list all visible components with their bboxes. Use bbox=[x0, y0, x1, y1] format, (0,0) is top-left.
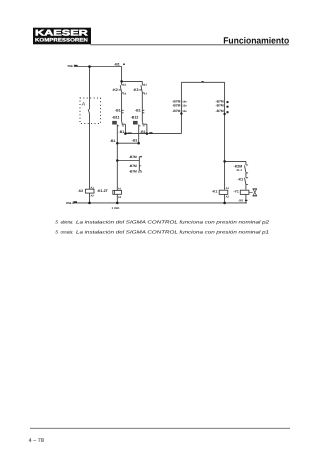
svg-text:-B1: -B1 bbox=[114, 63, 120, 67]
svg-text:Funcionamiento: Funcionamiento bbox=[223, 35, 289, 45]
node bus K1.2T bbox=[116, 202, 119, 205]
svg-text:14: 14 bbox=[144, 93, 147, 96]
svg-text:-B7M: -B7M bbox=[216, 104, 224, 108]
node ref right bbox=[223, 113, 225, 115]
svg-text:14: 14 bbox=[123, 93, 126, 96]
terminal X1 pin8 tick bbox=[74, 201, 77, 202]
svg-text:cerrada:: cerrada: bbox=[61, 230, 74, 235]
wire ref branch at node 160.5 bbox=[117, 156, 139, 170]
contact K3 bbox=[141, 85, 145, 93]
svg-text:abierta:: abierta: bbox=[61, 219, 74, 224]
svg-text:-B1: -B1 bbox=[135, 108, 141, 112]
svg-text:-K2: -K2 bbox=[78, 189, 84, 193]
wire left vertical upper bbox=[89, 67, 91, 110]
svg-text:A1: A1 bbox=[91, 187, 95, 190]
svg-text:-X0: -X0 bbox=[238, 198, 243, 202]
svg-text:-B1: -B1 bbox=[132, 139, 138, 143]
svg-text:La instalación del SIGMA CONTR: La instalación del SIGMA CONTROL funcion… bbox=[76, 219, 270, 224]
valve symbol bbox=[249, 191, 253, 193]
wire frame right vertical bbox=[224, 82, 226, 189]
svg-text:-B1: -B1 bbox=[115, 108, 121, 112]
svg-text:-K1: -K1 bbox=[237, 178, 243, 182]
sensor box B12 bbox=[133, 121, 138, 125]
svg-text:13e: 13e bbox=[182, 105, 187, 108]
node com right bbox=[146, 132, 149, 135]
coil K2 bbox=[85, 189, 94, 193]
svg-text:-K3: -K3 bbox=[133, 88, 139, 92]
node top bbox=[88, 65, 91, 68]
transducer B11 kink and pins bbox=[117, 121, 125, 143]
wire K1.2T vertical bbox=[116, 143, 118, 190]
wire K3 drop bbox=[141, 81, 143, 84]
svg-text:A2: A2 bbox=[118, 196, 122, 199]
pin dot B1 bbox=[123, 63, 125, 65]
contact K1 bbox=[245, 178, 249, 185]
svg-text:-Y1: -Y1 bbox=[234, 189, 239, 193]
contact K2 bbox=[120, 85, 124, 93]
junction dots bbox=[88, 65, 226, 204]
terminal X0 tick bbox=[245, 200, 247, 201]
svg-text:La instalación del SIGMA CONTR: La instalación del SIGMA CONTROL funcion… bbox=[76, 230, 270, 235]
svg-text:15e: 15e bbox=[138, 171, 143, 174]
svg-text:-B7M: -B7M bbox=[172, 109, 180, 113]
svg-text:-B7M: -B7M bbox=[172, 104, 180, 108]
svg-text:A1: A1 bbox=[118, 187, 122, 190]
svg-text:S: S bbox=[55, 219, 58, 224]
svg-text:21.1: 21.1 bbox=[237, 168, 243, 172]
coil Y1 bbox=[240, 190, 249, 194]
node bus K1 bbox=[223, 202, 226, 205]
svg-text:-B7M: -B7M bbox=[129, 164, 137, 168]
wire top horizontal bbox=[75, 66, 122, 68]
svg-text:13: 13 bbox=[123, 84, 126, 87]
wire cross horizontal bbox=[122, 80, 143, 82]
tick frame top bbox=[202, 81, 204, 82]
wire mid horizontal com bbox=[125, 133, 181, 135]
svg-text:-B7M: -B7M bbox=[129, 170, 137, 174]
svg-text:A: A bbox=[81, 102, 85, 108]
svg-text:-B1: -B1 bbox=[110, 139, 116, 143]
wire left vertical lower bbox=[89, 114, 91, 189]
option box A dashed bbox=[80, 98, 101, 124]
svg-text:KAESER: KAESER bbox=[35, 28, 88, 38]
wire frame top bbox=[181, 81, 224, 83]
KAESER logo block bbox=[33, 28, 91, 45]
switch S bbox=[88, 109, 89, 114]
svg-text:1 min: 1 min bbox=[112, 206, 120, 210]
wire K2 to B11 bbox=[121, 93, 123, 121]
pin ticks row bbox=[122, 110, 145, 113]
node lower left bbox=[116, 142, 119, 145]
svg-text:-K1: -K1 bbox=[212, 189, 218, 193]
coil K1.2T bbox=[113, 190, 122, 194]
wire branch to Y1 bbox=[225, 161, 246, 165]
node ref branch bbox=[116, 159, 119, 162]
tick com wire bbox=[149, 132, 152, 133]
node B1 branch bbox=[120, 80, 123, 83]
svg-text:com: com bbox=[126, 132, 132, 135]
small labels bbox=[66, 63, 243, 210]
svg-text:S: S bbox=[55, 230, 58, 235]
node lower right bbox=[137, 142, 140, 145]
wire K3 to B12 bbox=[141, 93, 143, 121]
node ref left bbox=[180, 112, 182, 114]
caption line 1 bbox=[55, 219, 269, 234]
node branch Y1 bbox=[223, 160, 226, 163]
sensor box B11 bbox=[112, 121, 117, 125]
svg-text:-B11: -B11 bbox=[112, 115, 120, 119]
svg-text:-K1.2T: -K1.2T bbox=[97, 189, 109, 193]
footer rule bbox=[30, 427, 290, 429]
svg-text:-B1: -B1 bbox=[140, 130, 146, 134]
svg-text:4 – 78: 4 – 78 bbox=[29, 438, 44, 444]
svg-text:12e: 12e bbox=[182, 110, 187, 113]
svg-text:-B12: -B12 bbox=[131, 115, 139, 119]
transducer B12 kink and pins bbox=[139, 121, 147, 143]
svg-text:-B1: -B1 bbox=[119, 130, 125, 134]
wire to Y1 coil bbox=[245, 185, 247, 190]
svg-text:-K2: -K2 bbox=[112, 88, 118, 92]
terminal X1 pin1 tick bbox=[74, 65, 77, 66]
contact K2M bbox=[245, 165, 249, 173]
coil K1 bbox=[219, 190, 228, 194]
wire frame left vertical bbox=[180, 82, 182, 133]
wire B1 branch vertical bbox=[121, 67, 123, 85]
svg-text:13: 13 bbox=[144, 84, 147, 87]
svg-text:ma 8: ma 8 bbox=[66, 201, 74, 205]
wire between contacts bbox=[245, 173, 247, 178]
node com left bbox=[124, 132, 127, 135]
svg-text:ma 1: ma 1 bbox=[68, 64, 76, 68]
svg-text:14e: 14e bbox=[182, 101, 187, 104]
wire lower horizontal bbox=[117, 142, 138, 144]
svg-text:A1: A1 bbox=[226, 187, 230, 190]
node bus K2 bbox=[88, 202, 91, 205]
bus bottom wire bbox=[74, 202, 247, 204]
svg-text:A2: A2 bbox=[91, 194, 95, 197]
svg-text:-B7M: -B7M bbox=[129, 155, 137, 159]
svg-text:A2: A2 bbox=[226, 196, 230, 199]
svg-text:-B7M: -B7M bbox=[216, 109, 224, 113]
header rule bbox=[91, 44, 290, 46]
svg-text:KOMPRESSOREN: KOMPRESSOREN bbox=[35, 38, 88, 44]
